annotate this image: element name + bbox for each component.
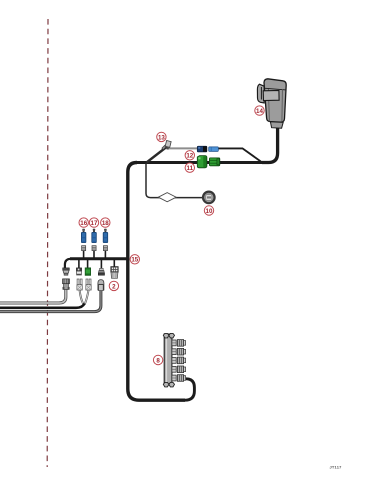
wire drop down to green lower connector — [87, 259, 89, 269]
connector B top (dark cap white body) — [76, 268, 81, 275]
wire connector 12 to diagonal merge (black segment) — [218, 148, 262, 162]
block 8 bar — [164, 334, 172, 385]
connector D top (gray knob) — [98, 268, 104, 275]
svg-text:18: 18 — [102, 220, 109, 227]
wire fork lead left prong — [80, 290, 84, 304]
block 8 terminal stubs — [172, 340, 186, 382]
connector 12 navy half — [197, 146, 207, 152]
boot — [270, 122, 283, 128]
wire fork lead right prong — [85, 290, 89, 305]
ridge lines — [268, 89, 269, 121]
wire thin drop from junction down to diamond and connector 10 — [146, 163, 203, 198]
wire gray lead to left edge (core) — [0, 290, 66, 304]
wire black merged lead to left edge — [0, 304, 85, 308]
connector small A (left end of branch) — [63, 268, 70, 275]
wire drop down to 2nd lower connector — [78, 259, 80, 269]
pin tip — [83, 229, 85, 232]
wire gray lead to left edge (outline) — [0, 290, 66, 304]
plug A (ribbed) — [63, 279, 70, 290]
svg-text:12: 12 — [186, 153, 193, 160]
svg-text:10: 10 — [206, 208, 213, 215]
wire drop up to connector 16 — [83, 251, 85, 259]
label 2 — [109, 281, 118, 290]
label 17 — [89, 218, 98, 227]
connector 12 blue half — [209, 147, 219, 152]
wire drop up to connector 17 — [93, 251, 95, 259]
wire drop down to connector 2 — [113, 259, 115, 267]
terminal block 8 — [163, 333, 185, 387]
small gray mate — [82, 246, 86, 251]
wire drop up to connector 18 — [104, 251, 106, 259]
lever arm — [263, 90, 279, 100]
svg-text:8: 8 — [156, 357, 160, 364]
body — [264, 79, 286, 122]
plug C (white fork) — [86, 279, 91, 290]
connector housing 14 — [257, 79, 286, 128]
wire corner up to connector 14 pigtail — [262, 126, 278, 163]
blue body — [81, 232, 86, 242]
connector 13 — [162, 141, 171, 150]
label 13 — [157, 132, 166, 141]
label 8 — [153, 355, 162, 364]
svg-text:JT117: JT117 — [329, 465, 342, 470]
connector 16 column — [81, 229, 86, 251]
svg-text:14: 14 — [256, 108, 263, 115]
wire branch left end curving down — [65, 259, 71, 268]
svg-text:11: 11 — [187, 165, 194, 172]
label 10 — [204, 206, 213, 215]
cap separation line — [264, 88, 286, 90]
wire dark lead from barrel to left edge (outline) — [0, 291, 101, 312]
diamond routing marker — [158, 193, 176, 202]
label 11 — [185, 163, 194, 172]
svg-text:13: 13 — [158, 134, 165, 141]
connector 10 round — [203, 192, 215, 204]
wire dark lead from barrel to left edge (core) — [0, 291, 101, 312]
block 8 bottom nuts — [163, 382, 174, 387]
dashed boundary line — [46, 19, 49, 467]
wire branch horizontal at label 15 — [70, 257, 127, 260]
svg-text:17: 17 — [91, 220, 98, 227]
connector 11 green half B — [209, 158, 219, 166]
label 12 — [185, 151, 194, 160]
wire upper run connector 13 to connector 12 (silver segment) — [169, 147, 198, 149]
label 15 — [130, 255, 139, 264]
clip loop — [257, 84, 264, 103]
connector 18 column — [103, 229, 108, 251]
wire trunk: main harness loop (left vertical, top horizontal, bottom run) — [128, 163, 185, 401]
connector 11 green half A — [197, 156, 207, 168]
connector 17 column — [92, 229, 97, 251]
wire diagonal from junction to connector 13 — [147, 147, 167, 163]
label 16 — [79, 218, 88, 227]
connector 2 (large pin connector) — [111, 267, 118, 279]
svg-text:16: 16 — [80, 220, 87, 227]
wire drop down to 4th lower connector — [100, 259, 102, 269]
svg-text:2: 2 — [112, 283, 116, 290]
wire top horizontal through connector 11 — [135, 161, 268, 164]
label 14 — [255, 106, 264, 115]
plug B (white fork) — [77, 279, 82, 290]
wire hook from bottom run up to fuse block stub — [184, 379, 195, 400]
plug D (barrel) — [98, 280, 104, 291]
connector C top (green) — [85, 268, 90, 275]
label 18 — [101, 218, 110, 227]
block 8 top nuts — [163, 333, 174, 338]
svg-text:15: 15 — [131, 257, 138, 264]
